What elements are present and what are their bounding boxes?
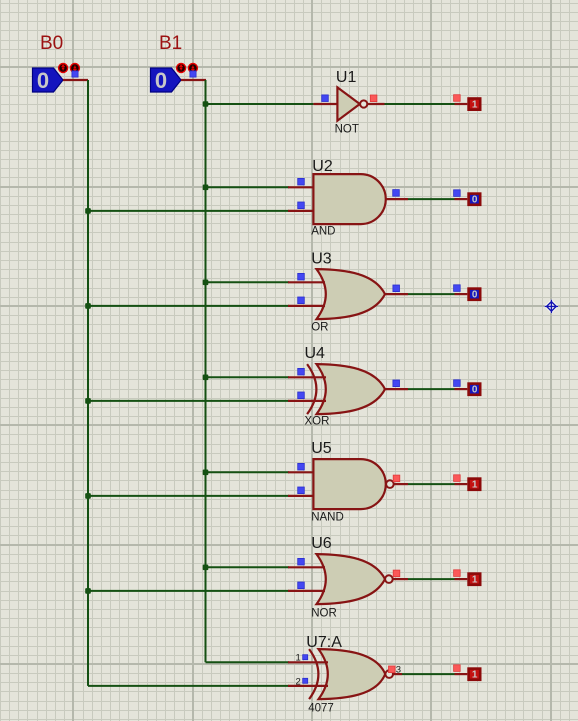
wire B1 to U3 input A bbox=[206, 281, 290, 283]
U6 output pin bbox=[393, 578, 408, 580]
junction B1/U6 bbox=[203, 565, 209, 571]
U6 input B pin state bbox=[298, 582, 305, 589]
U4 input pin B bbox=[288, 400, 326, 402]
logic toggle B0 body bbox=[33, 68, 64, 93]
toggle B1 up-button bbox=[176, 63, 186, 73]
svg-text:NOT: NOT bbox=[335, 123, 359, 135]
U3 output pin bbox=[385, 293, 408, 295]
probe U7 pin bbox=[455, 673, 468, 675]
U2 output pin bbox=[386, 198, 408, 200]
svg-text:B0: B0 bbox=[40, 33, 63, 54]
wire B0 to U4 input B bbox=[88, 400, 289, 402]
logic probe U2 output = 0 bbox=[469, 194, 481, 206]
svg-text:NAND: NAND bbox=[311, 512, 344, 524]
svg-text:0: 0 bbox=[37, 68, 49, 93]
U5 input A pin state bbox=[298, 463, 305, 470]
gate U7 XNOR bbox=[309, 649, 393, 699]
svg-text:3: 3 bbox=[396, 665, 401, 676]
svg-text:1: 1 bbox=[472, 100, 478, 111]
junction B0/U5 bbox=[85, 493, 91, 499]
U5 input pin A bbox=[288, 471, 315, 473]
toggle B0 down-button bbox=[70, 63, 80, 73]
U2 output pin state bbox=[393, 190, 400, 197]
svg-text:1: 1 bbox=[472, 575, 478, 586]
U7 output pin bbox=[393, 673, 402, 675]
U5 input B pin state bbox=[298, 487, 305, 494]
U6 input A pin state bbox=[298, 558, 305, 565]
probe U1 pin bbox=[455, 103, 468, 105]
probe U3 pin bbox=[455, 293, 468, 295]
wire B1 to U7 input A bbox=[206, 661, 290, 663]
op U1 NOT gate bbox=[337, 87, 367, 120]
U7 input pin B bbox=[288, 685, 328, 687]
svg-text:U4: U4 bbox=[305, 345, 326, 362]
svg-text:1: 1 bbox=[296, 653, 301, 664]
probe U6 pin state bbox=[454, 570, 461, 577]
svg-text:0: 0 bbox=[155, 68, 167, 93]
svg-text:U7:A: U7:A bbox=[306, 634, 342, 651]
U7 output pin state bbox=[389, 666, 396, 673]
wire B0 to U7 input B bbox=[88, 685, 289, 687]
toggle B0 pin bbox=[63, 79, 88, 81]
svg-text:OR: OR bbox=[311, 322, 328, 334]
svg-text:U5: U5 bbox=[311, 440, 332, 457]
U2 input B pin state bbox=[298, 202, 305, 209]
probe U3 pin state bbox=[454, 285, 461, 292]
logic toggle B1 body bbox=[151, 68, 182, 93]
toggle B1 pin bbox=[181, 79, 206, 81]
svg-text:0: 0 bbox=[472, 195, 478, 206]
svg-text:U2: U2 bbox=[312, 158, 333, 175]
wire U6 output to probe bbox=[408, 578, 455, 580]
wire B1 to U2 input A bbox=[206, 186, 290, 188]
svg-text:2: 2 bbox=[296, 676, 301, 687]
probe U1 pin state bbox=[454, 95, 461, 102]
junction B1/U2 bbox=[203, 185, 209, 191]
svg-text:B1: B1 bbox=[159, 33, 182, 54]
svg-text:1: 1 bbox=[472, 480, 478, 491]
logic probe U3 output = 0 bbox=[469, 289, 481, 301]
U4 input B pin state bbox=[298, 392, 305, 399]
junction B0/U2 bbox=[85, 208, 91, 214]
wire B0 to U3 input B bbox=[88, 305, 289, 307]
probe U4 pin bbox=[455, 388, 468, 390]
gate U2 AND bbox=[313, 174, 385, 224]
wire U1 output to probe bbox=[385, 103, 455, 105]
U1 input pin state bbox=[322, 95, 329, 102]
toggle B0 up-button bbox=[58, 63, 68, 73]
gate U6 NOR bbox=[317, 554, 393, 604]
U6 input pin A bbox=[288, 566, 325, 568]
gate U3 OR bbox=[317, 269, 386, 319]
junction B1/U5 bbox=[203, 470, 209, 476]
U7 input B pin state bbox=[303, 678, 308, 683]
junction B0/U6 bbox=[85, 588, 91, 594]
wire B0 to U6 input B bbox=[88, 590, 289, 592]
U4 input A pin state bbox=[298, 368, 305, 375]
logic probe U7 output = 1 bbox=[469, 669, 481, 681]
probe U2 pin state bbox=[454, 190, 461, 197]
svg-text:AND: AND bbox=[311, 226, 335, 238]
U5 output pin bbox=[394, 483, 408, 485]
U3 input B pin state bbox=[298, 297, 305, 304]
U6 output pin state bbox=[393, 570, 400, 577]
logic probe U5 output = 1 bbox=[469, 479, 481, 491]
U5 input pin B bbox=[288, 495, 315, 497]
wire B1 to U4 input A bbox=[206, 376, 290, 378]
U1 output pin bbox=[368, 103, 385, 105]
svg-text:U6: U6 bbox=[311, 535, 332, 552]
probe U7 pin state bbox=[454, 665, 461, 672]
svg-text:1: 1 bbox=[472, 670, 478, 681]
U5 output pin state bbox=[393, 475, 400, 482]
svg-text:XOR: XOR bbox=[305, 416, 330, 428]
probe U5 pin state bbox=[454, 475, 461, 482]
wire U7 output to probe bbox=[402, 673, 455, 675]
toggle B1 down-button bbox=[188, 63, 198, 73]
junction B1/U1 bbox=[203, 101, 209, 107]
U7 input A pin state bbox=[303, 655, 308, 660]
probe U4 pin state bbox=[454, 380, 461, 387]
svg-text:4077: 4077 bbox=[308, 702, 334, 714]
wire U2 output to probe bbox=[408, 198, 455, 200]
origin marker bbox=[545, 300, 558, 313]
wire B0 vertical bbox=[87, 80, 89, 686]
junction B0/U3 bbox=[85, 303, 91, 309]
probe U5 pin bbox=[455, 483, 468, 485]
logic probe U6 output = 1 bbox=[469, 574, 481, 586]
svg-text:0: 0 bbox=[472, 290, 478, 301]
U4 output pin bbox=[384, 388, 409, 390]
U4 output pin state bbox=[393, 380, 400, 387]
U2 input pin A bbox=[288, 186, 315, 188]
probe U6 pin bbox=[455, 578, 468, 580]
svg-text:U1: U1 bbox=[336, 69, 357, 86]
wire B0 to U5 input B bbox=[88, 495, 289, 497]
probe U2 pin bbox=[455, 198, 468, 200]
U1 output pin state bbox=[370, 95, 377, 102]
U4 input pin A bbox=[288, 376, 326, 378]
wire B1 to U1 input bbox=[206, 103, 314, 105]
junction B1/U4 bbox=[203, 375, 209, 381]
wire U5 output to probe bbox=[408, 483, 455, 485]
gate U4 XOR bbox=[307, 364, 385, 414]
logic probe U4 output = 0 bbox=[469, 384, 481, 396]
junction B0/U4 bbox=[85, 398, 91, 404]
U3 input pin B bbox=[288, 305, 325, 307]
wire U3 output to probe bbox=[408, 293, 455, 295]
U3 input A pin state bbox=[298, 273, 305, 280]
svg-text:NOR: NOR bbox=[311, 608, 337, 620]
toggle B0 pin indicator (0) bbox=[72, 71, 78, 77]
U1 input pin bbox=[313, 103, 338, 105]
U2 input pin B bbox=[288, 210, 315, 212]
U3 input pin A bbox=[288, 281, 325, 283]
U7 input pin A bbox=[288, 661, 328, 663]
wire B1 vertical bbox=[205, 80, 207, 662]
wire B0 to U2 input B bbox=[88, 210, 289, 212]
svg-text:U3: U3 bbox=[311, 251, 332, 268]
toggle B1 pin indicator (0) bbox=[190, 71, 196, 77]
U2 input A pin state bbox=[298, 178, 305, 185]
svg-text:0: 0 bbox=[472, 385, 478, 396]
U6 input pin B bbox=[288, 590, 325, 592]
logic probe U1 output = 1 bbox=[469, 99, 481, 111]
gate U5 NAND bbox=[313, 459, 393, 509]
wire B1 to U6 input A bbox=[206, 566, 290, 568]
junction B1/U3 bbox=[203, 280, 209, 286]
wire U4 output to probe bbox=[408, 388, 455, 390]
wire B1 to U5 input A bbox=[206, 471, 290, 473]
U3 output pin state bbox=[393, 285, 400, 292]
